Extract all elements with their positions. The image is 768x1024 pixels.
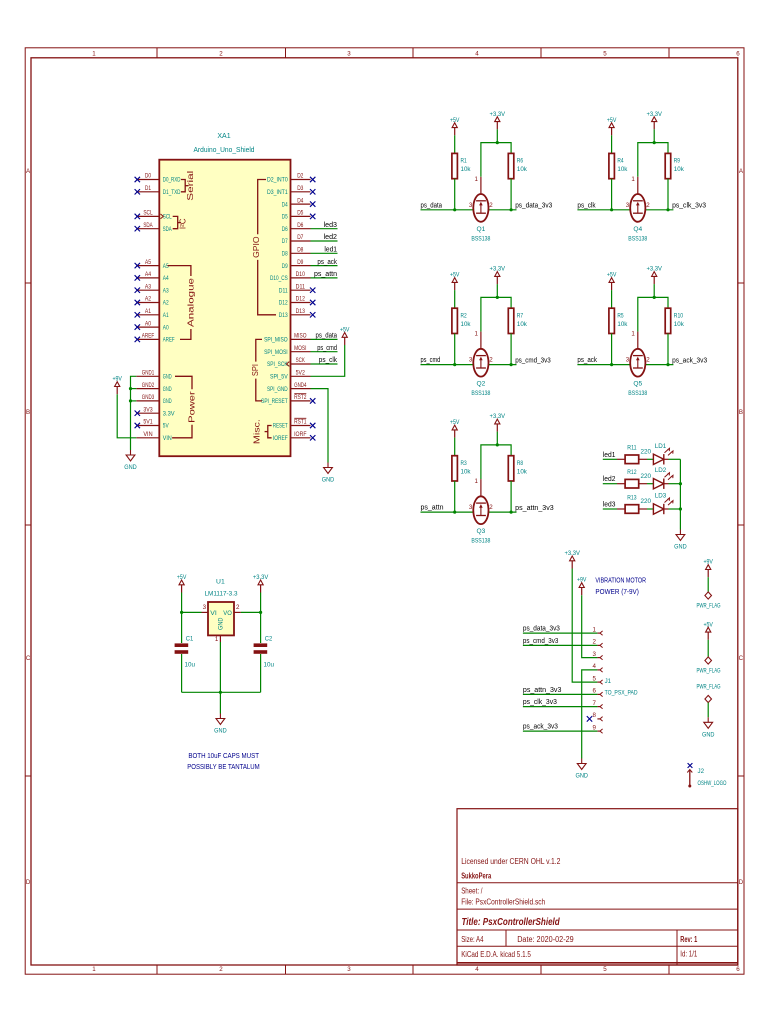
ground [674,530,687,551]
no-connect [310,398,315,403]
svg-text:3: 3 [469,357,473,364]
svg-text:D0: D0 [145,173,152,180]
svg-text:U1: U1 [216,579,225,586]
wire LED ground rail [679,459,681,529]
regulator U1 LM1117-3.3 [202,579,241,643]
pin AREF (AREF) of XA1 [136,333,174,344]
svg-text:Title: PsxControllerShield: Title: PsxControllerShield [462,917,561,928]
svg-text:VIN: VIN [163,435,172,442]
wire [523,644,598,646]
svg-text:ps_clk_3v3: ps_clk_3v3 [523,699,557,706]
svg-text:D1_TXD: D1_TXD [163,189,181,196]
junction [510,510,513,513]
svg-text:D: D [739,879,744,886]
wire [454,438,456,456]
wire [523,730,598,732]
svg-text:B: B [26,409,30,416]
svg-text:ps_attn_3v3: ps_attn_3v3 [515,505,554,512]
svg-text:A5: A5 [145,259,152,266]
wire [523,632,598,634]
svg-text:led2: led2 [324,234,338,241]
pin 3V3 (3.3V) of XA1 [136,406,175,417]
svg-text:ps_data_3v3: ps_data_3v3 [523,626,560,633]
svg-text:BSS138: BSS138 [471,390,490,397]
wire gate branch [481,445,511,479]
wire [669,508,681,510]
no-connect [310,312,315,317]
junction [180,611,183,614]
power symbol +3.3V (Q1 cell) [490,111,506,130]
wire [421,364,474,366]
transistor Q4 BSS138 [626,176,650,243]
svg-text:7: 7 [593,700,597,707]
wire [603,458,617,460]
pin D8 (D8) of XA1 [282,247,311,258]
svg-text:OSHW_LOGO: OSHW_LOGO [698,780,727,787]
power symbol +5V (flag) [703,621,713,640]
svg-text:10u: 10u [185,661,196,668]
junction [610,208,613,211]
junction [666,363,669,366]
wire [311,240,338,242]
no-connect [135,263,140,268]
junction [679,507,682,510]
svg-text:Licensed under CERN OHL v.1.2: Licensed under CERN OHL v.1.2 [461,857,561,866]
svg-text:3: 3 [626,202,630,209]
svg-text:GND: GND [124,464,137,471]
svg-text:R13: R13 [627,494,637,501]
power symbol +5V (Q2 cell) [450,272,460,291]
svg-text:ps_ack: ps_ack [317,259,337,266]
svg-text:LD2: LD2 [655,467,667,474]
pin GND4 (SPI_GND) of XA1 [267,382,311,393]
svg-text:SPI_MISO: SPI_MISO [264,337,288,344]
resistor R12 220 [617,469,651,488]
svg-text:Q5: Q5 [633,381,642,388]
svg-text:6: 6 [736,966,740,973]
junction [453,510,456,513]
svg-text:Q4: Q4 [633,226,642,233]
wire [311,252,338,254]
wire [669,458,681,460]
no-connect [310,300,315,305]
svg-text:10k: 10k [461,468,472,475]
ground [322,463,335,484]
svg-text:Q2: Q2 [477,381,486,388]
svg-text:220: 220 [641,498,652,505]
transistor Q5 BSS138 [626,331,650,398]
power symbol +5V (Q4 cell) [607,117,617,136]
svg-text:Q3: Q3 [477,528,486,535]
pin GND3 (GND) of XA1 [136,394,172,405]
no-connect [310,177,315,182]
svg-text:GND: GND [702,731,715,738]
svg-text:220: 220 [641,473,652,480]
no-connect [587,716,592,722]
wire [611,290,613,308]
junction [496,443,499,446]
svg-text:D5: D5 [282,214,288,221]
svg-text:1: 1 [215,636,219,643]
svg-text:ps_ack_3v3: ps_ack_3v3 [523,724,558,731]
power symbol +9V [112,376,122,395]
wire [311,265,338,267]
wire U1 gnd [219,642,221,714]
wire [510,481,512,512]
power flag PWR_FLAG (GND) [697,684,721,703]
svg-text:IORF: IORF [294,431,307,438]
svg-text:ps_data_3v3: ps_data_3v3 [515,203,552,210]
svg-text:5: 5 [593,675,597,682]
svg-text:D11: D11 [279,287,288,294]
svg-text:A1: A1 [163,312,169,319]
pin D2 (D2_INT0) of XA1 [267,173,311,184]
svg-text:C1: C1 [186,636,194,643]
svg-text:4: 4 [475,966,479,973]
power flag PWR_FLAG (+9V) [697,592,721,610]
svg-text:10k: 10k [461,321,472,328]
svg-text:4: 4 [475,50,479,57]
wire [647,508,653,510]
svg-text:3: 3 [626,357,630,364]
svg-text:Analogue: Analogue [186,277,195,327]
pin GND1 (GND) of XA1 [136,370,172,381]
svg-text:ps_data: ps_data [421,202,443,209]
svg-text:D3: D3 [297,185,304,192]
svg-text:J1: J1 [605,678,612,685]
svg-text:ps_clk: ps_clk [319,357,338,364]
svg-text:1: 1 [593,626,597,633]
ground [124,450,137,471]
power symbol +3.3V (Q2 cell) [490,266,506,285]
svg-text:ps_attn: ps_attn [314,271,337,278]
svg-text:BSS138: BSS138 [628,235,647,242]
pin 7 of J1 [593,700,603,709]
svg-text:PWR_FLAG: PWR_FLAG [697,603,721,610]
svg-text:ps_attn_3v3: ps_attn_3v3 [523,687,562,694]
logo J2 OSHW_LOGO [687,763,726,787]
wire GND1-GND3 bus to GND [131,376,137,450]
svg-text:R9: R9 [674,158,680,165]
connector J1 TO_PSX_PAD [605,678,638,696]
transistor Q1 BSS138 [469,176,493,243]
svg-text:D5: D5 [297,210,304,217]
svg-text:10k: 10k [617,321,628,328]
wire [421,209,474,211]
power symbol +3.3V (Q4 cell) [646,111,662,130]
junction [219,691,222,694]
LED LD2 [653,467,673,489]
pin D10 (D10_CS) of XA1 [270,271,311,282]
svg-text:1: 1 [92,966,96,973]
resistor R3 [452,456,471,481]
svg-text:5: 5 [603,966,607,973]
svg-text:SPI_SCK: SPI_SCK [267,361,288,368]
svg-text:6: 6 [736,50,740,57]
svg-text:ps_clk_3v3: ps_clk_3v3 [672,203,706,210]
svg-text:led3: led3 [603,502,616,509]
pin D13 (D13) of XA1 [279,308,311,319]
svg-text:D12: D12 [296,296,306,303]
svg-text:SCL: SCL [163,214,172,221]
svg-text:D6: D6 [297,222,304,229]
pin D1 (D1_TXD) of XA1 [136,185,180,196]
svg-text:XA1: XA1 [217,133,230,140]
junction [496,296,499,299]
svg-text:2: 2 [489,357,493,364]
pin A3 (A3) of XA1 [136,283,169,294]
group bracket GPIO [252,180,276,315]
svg-text:10u: 10u [264,661,275,668]
wire [496,129,498,142]
svg-text:LM1117-3.3: LM1117-3.3 [205,590,238,597]
pin D7 (D7) of XA1 [282,234,311,245]
junction [653,141,656,144]
svg-text:3.3V: 3.3V [163,410,175,417]
svg-text:GND: GND [322,477,335,484]
svg-text:1: 1 [474,478,478,485]
wire [260,593,262,644]
power symbol +5V (U1) [177,574,187,593]
wire [182,611,202,613]
svg-text:GND3: GND3 [142,394,155,401]
svg-text:D13: D13 [279,312,288,319]
svg-text:C: C [739,655,744,662]
power symbol +3.3V (Q3 cell) [490,413,506,432]
svg-text:PWR_FLAG: PWR_FLAG [697,684,721,691]
svg-text:BSS138: BSS138 [471,235,490,242]
wire [510,179,512,210]
svg-text:3V3: 3V3 [143,406,153,413]
no-connect [135,324,140,329]
wire [667,179,669,210]
svg-text:VIN: VIN [143,431,152,438]
wire [669,483,681,485]
svg-text:1: 1 [474,176,478,183]
svg-text:D6: D6 [282,226,288,233]
svg-text:SPI_MOSI: SPI_MOSI [264,349,288,356]
svg-text:D0_RXD: D0_RXD [163,177,181,184]
svg-text:10k: 10k [517,321,528,328]
svg-text:GND: GND [674,544,687,551]
resistor R5 [609,308,628,333]
svg-text:Date: 2020-02-29: Date: 2020-02-29 [517,935,574,944]
svg-text:3: 3 [347,966,351,973]
junction [129,387,132,390]
svg-text:SPI_5V: SPI_5V [270,374,288,381]
pin 9 of J1 [593,724,603,733]
svg-text:2: 2 [593,639,597,646]
resistor R13 220 [617,494,651,513]
svg-text:D11: D11 [296,283,306,290]
wire [577,209,630,211]
wire [707,703,709,718]
svg-text:A4: A4 [145,271,152,278]
pin 6 of J1 [593,688,603,697]
wire [454,334,456,365]
svg-text:AREF: AREF [163,337,175,344]
svg-text:10k: 10k [517,468,528,475]
svg-text:ps_data: ps_data [316,333,338,340]
wire gate branch [638,297,668,331]
svg-text:5: 5 [603,50,607,57]
pin A4 (A4) of XA1 [136,271,169,282]
wire +3.3V to pin5 [572,569,597,683]
no-connect [135,226,140,231]
junction [653,296,656,299]
no-connect [135,189,140,194]
wire [311,338,338,340]
svg-text:ps_cmd_3v3: ps_cmd_3v3 [523,638,559,645]
op-amp XA1 Arduino_Uno_Shield body [159,160,290,457]
wire gate branch [481,143,511,177]
svg-text:A0: A0 [163,324,169,331]
no-connect [135,411,140,416]
resistor R7 [508,308,527,333]
svg-text:Serial: Serial [186,170,195,200]
note caps tantalum [187,751,260,771]
wire [523,706,598,708]
group bracket I2C [173,216,188,229]
svg-text:R3: R3 [461,460,467,467]
svg-text:Sheet: /: Sheet: / [461,887,483,896]
svg-text:Rev: 1: Rev: 1 [680,935,697,944]
no-connect [135,312,140,317]
power symbol +5V (Q3 cell) [450,419,460,438]
wire pin4 to GND [582,670,598,759]
svg-text:VO: VO [223,610,232,617]
no-connect [310,201,315,206]
pin SCL (SCL) of XA1 [136,210,172,221]
pin 3 of J1 [593,651,603,660]
wire [645,364,673,366]
svg-text:R4: R4 [617,158,623,165]
svg-text:3: 3 [469,202,473,209]
svg-text:R11: R11 [627,445,637,452]
resistor R9 [665,153,684,178]
wire [667,334,669,365]
svg-text:2: 2 [219,966,223,973]
pin 8 of J1 [593,712,603,721]
group bracket Analogue [168,266,196,340]
wire [647,483,653,485]
pin MISO (SPI_MISO) of XA1 [264,333,310,344]
svg-text:3: 3 [347,50,351,57]
wire [311,351,338,353]
svg-text:5V2: 5V2 [296,370,306,377]
svg-text:R1: R1 [461,158,467,165]
power symbol +3.3V (Q5 cell) [646,266,662,285]
no-connect [135,214,140,219]
group bracket Misc. [253,419,272,444]
note vibration motor [595,576,646,596]
svg-text:SPI_RESET: SPI_RESET [261,398,288,405]
svg-text:Size: A4: Size: A4 [461,935,484,944]
pin A2 (A2) of XA1 [136,296,169,307]
pin 2 of J1 [593,639,603,648]
wire GND3 [131,400,137,402]
wire [523,693,598,695]
svg-text:2: 2 [236,604,240,611]
group bracket Serial [181,170,195,200]
svg-text:VI: VI [210,610,217,617]
junction [666,208,669,211]
pin D0 (D0_RXD) of XA1 [136,173,180,184]
wire [577,364,630,366]
svg-text:GPIO: GPIO [252,236,261,258]
svg-text:Q1: Q1 [477,226,486,233]
svg-text:RST2: RST2 [294,394,307,401]
wire [707,577,709,592]
svg-text:A2: A2 [145,296,152,303]
svg-text:A1: A1 [145,308,152,315]
wire [241,611,261,613]
svg-text:C2: C2 [265,636,273,643]
wire [707,640,709,657]
svg-text:ps_cmd: ps_cmd [421,357,441,364]
svg-text:D4: D4 [297,197,304,204]
power symbol +5V (SPI_5V) [340,327,350,346]
svg-text:D7: D7 [282,238,288,245]
wire [311,228,338,230]
wire [311,363,338,365]
resistor R11 220 [617,445,651,464]
svg-text:2: 2 [646,357,650,364]
wire [645,209,673,211]
svg-text:ps_ack_3v3: ps_ack_3v3 [672,357,707,364]
svg-text:File: PsxControllerShield.sch: File: PsxControllerShield.sch [461,898,545,907]
wire [181,654,183,692]
ground [575,759,588,780]
resistor R8 [508,456,527,481]
svg-text:BOTH 10uF CAPS MUST: BOTH 10uF CAPS MUST [188,751,259,760]
svg-text:9: 9 [593,724,597,731]
no-connect [310,214,315,219]
svg-text:10k: 10k [674,321,685,328]
junction [259,611,262,614]
svg-text:VIBRATION MOTOR: VIBRATION MOTOR [595,576,646,585]
svg-text:led2: led2 [603,476,616,483]
svg-text:BSS138: BSS138 [628,390,647,397]
svg-text:IOREF: IOREF [273,435,288,442]
svg-text:MOSI: MOSI [294,345,307,352]
svg-text:SCL: SCL [143,210,153,217]
svg-text:LD1: LD1 [655,443,667,450]
power symbol +9V (flag) [703,559,713,578]
svg-text:6: 6 [593,688,597,695]
svg-text:MISO: MISO [294,333,307,340]
no-connect [310,189,315,194]
pin GND2 (GND) of XA1 [136,382,172,393]
resistor R4 [609,153,628,178]
power symbol +3.3V (U1) [253,574,269,593]
svg-text:GND: GND [163,374,172,381]
svg-text:ps_ack: ps_ack [577,357,597,364]
resistor R1 [452,153,471,178]
svg-text:D10: D10 [296,271,306,278]
pin VIN (VIN) of XA1 [136,431,172,442]
svg-text:3: 3 [203,604,207,611]
svg-text:SDA: SDA [163,226,172,233]
svg-text:D4: D4 [282,201,288,208]
wire [489,209,517,211]
svg-text:LD3: LD3 [655,493,667,500]
capacitor C2 10u [254,636,275,669]
svg-text:10k: 10k [617,166,628,173]
svg-text:SPI_GND: SPI_GND [267,386,288,393]
wire [454,481,456,512]
svg-text:SPI: SPI [251,364,260,376]
